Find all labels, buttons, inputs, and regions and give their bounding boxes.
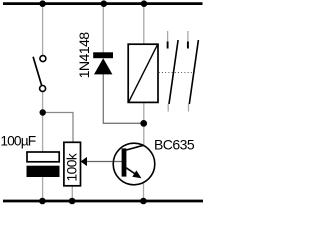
wire wiper to base: [87, 161, 122, 163]
relay coil K1 diagonal: [129, 45, 158, 102]
junction top rail / switch: [39, 0, 46, 7]
junction top rail / diode: [101, 0, 108, 7]
wire switch bottom to capacitor: [42, 92, 44, 152]
relay contact 1 bottom lead: [167, 104, 169, 112]
svg-text:BC635: BC635: [154, 136, 195, 152]
relay contact 2 top lead: [187, 31, 189, 42]
wire resistor bottom to rail: [71, 186, 73, 201]
junction bottom rail / resistor: [69, 198, 76, 205]
wire diode cathode to top rail: [102, 5, 104, 53]
relay contact 1 top lead: [167, 31, 169, 42]
wire diode anode to node A: [103, 74, 143, 123]
wire emitter to bottom rail: [143, 183, 145, 200]
junction switch / capacitor / resistor branch: [40, 109, 46, 115]
wire relay coil top: [143, 5, 145, 44]
relay contact 2 bottom lead: [188, 104, 190, 112]
relay contact 1 blade: [169, 40, 178, 104]
svg-text:100µF: 100µF: [0, 133, 35, 148]
switch S1 blade: [33, 57, 42, 86]
top supply rail: [3, 2, 203, 5]
mechanical link dotted line: [159, 72, 194, 74]
resistor wiper arrow: [81, 157, 87, 166]
switch S1 top terminal: [40, 56, 46, 62]
transistor Q1 base bar: [122, 148, 127, 176]
svg-text:1N4148: 1N4148: [77, 32, 93, 79]
transistor Q1 collector stroke: [126, 145, 144, 150]
capacitor 100uF bottom plate: [27, 166, 60, 177]
resistor 100k body: [64, 142, 81, 186]
diode 1N4148 cathode bar: [93, 52, 113, 58]
relay contact 1 fixed contact: [167, 42, 169, 49]
junction top rail / relay: [141, 0, 148, 7]
junction bottom rail / emitter: [140, 198, 147, 205]
junction bottom rail / capacitor: [39, 198, 46, 205]
transistor Q1 BC635 circle: [113, 143, 155, 185]
wire capacitor to bottom rail: [42, 177, 44, 200]
wire relay coil bottom to node A: [143, 103, 145, 124]
relay contact 2 fixed contact: [187, 42, 189, 49]
node A : diode / relay / collector junction: [140, 120, 147, 127]
wire switch top: [42, 5, 44, 55]
wire node A to collector: [143, 123, 145, 145]
diode 1N4148 anode triangle: [94, 58, 112, 74]
switch S1 bottom terminal: [40, 86, 46, 92]
bottom supply rail: [3, 200, 203, 203]
svg-text:100k: 100k: [64, 153, 79, 181]
relay coil K1 body: [128, 44, 158, 102]
wire branch to resistor top: [43, 113, 73, 143]
relay contact 2 blade: [189, 40, 198, 104]
capacitor 100uF top plate: [27, 152, 59, 162]
transistor Q1 emitter arrow: [132, 170, 141, 178]
transistor Q1 emitter stroke: [126, 168, 139, 177]
